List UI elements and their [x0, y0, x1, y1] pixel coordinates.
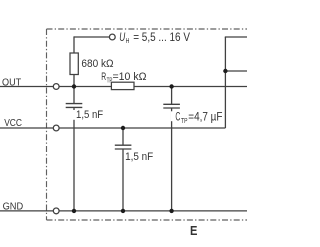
wire OUT row right segment [134, 86, 247, 88]
wire VCC row left segment [0, 127, 53, 129]
capacitor C1 top plate [66, 103, 83, 105]
resistor RTP 10k body [111, 82, 134, 89]
capacitor C1 bottom plate [66, 106, 83, 108]
wire right vertical VCC feed [224, 37, 226, 128]
svg-text:TP: TP [181, 116, 188, 125]
terminal GND [53, 208, 59, 214]
svg-text:C: C [175, 112, 180, 124]
wire GND terminal to right edge [59, 210, 247, 212]
boundary frame E top (dash-dot) [47, 28, 248, 30]
capacitor C2 bottom lead to GND rail [122, 149, 124, 211]
svg-text:1,5 nF: 1,5 nF [76, 109, 103, 121]
junction GND/CTP node [169, 209, 173, 213]
junction GND/C1 node [72, 209, 76, 213]
wire OUT terminal to RTP [59, 86, 111, 88]
terminal OUT [53, 84, 59, 90]
wire right top pin [225, 36, 247, 38]
svg-text:E: E [190, 223, 198, 238]
capacitor C1 1.5nF top lead [73, 87, 75, 104]
svg-text:R: R [101, 71, 106, 83]
capacitor C1 bottom lead to GND rail [73, 107, 75, 210]
svg-text:OUT: OUT [2, 77, 21, 88]
label CTP = 4,7 uF [171, 111, 224, 125]
label C1 value 1,5 nF [73, 109, 105, 121]
wire top supply rail to UH terminal [74, 36, 109, 38]
svg-text:=10 kΩ: =10 kΩ [113, 71, 147, 83]
capacitor C2 top plate [115, 144, 132, 146]
resistor R1 680k body [70, 53, 78, 75]
label C2 value 1,5 nF [125, 151, 155, 163]
junction right mid pin node [223, 69, 227, 73]
wire R1 bottom to OUT node [73, 75, 75, 87]
boundary frame E bottom (dash-dot) [47, 219, 248, 221]
wire vertical from top rail to R1 [73, 36, 75, 53]
capacitor CTP bottom lead to GND rail [171, 108, 173, 211]
svg-text:680 kΩ: 680 kΩ [81, 58, 113, 70]
svg-text:H: H [126, 36, 130, 45]
capacitor C2 1.5nF top lead from VCC [122, 128, 124, 145]
capacitor CTP top lead from OUT row [171, 87, 173, 105]
svg-text:= 5,5 ... 16 V: = 5,5 ... 16 V [133, 32, 190, 44]
junction VCC/C2 node [121, 126, 125, 130]
boundary frame E left (dash-dot) [46, 29, 48, 220]
capacitor CTP top plate [163, 103, 180, 105]
svg-text:1,5 nF: 1,5 nF [125, 151, 153, 163]
terminal VCC [53, 125, 59, 131]
label RTP = 10 kOhm [101, 71, 146, 84]
capacitor CTP bottom plate [163, 107, 180, 109]
wire right mid pin [225, 70, 247, 72]
capacitor C2 bottom plate [115, 148, 132, 150]
wire OUT row left segment [0, 86, 53, 88]
wire GND row left segment [0, 210, 53, 212]
svg-text:GND: GND [3, 201, 24, 212]
junction RTP/CTP node [169, 84, 173, 88]
junction OUT node at R1/C1 [72, 84, 76, 88]
svg-text:VCC: VCC [4, 118, 22, 129]
wire VCC terminal to right vertical [59, 127, 225, 129]
label UH = 5,5 ... 16 V [119, 32, 190, 45]
svg-text:=4,7 µF: =4,7 µF [188, 112, 222, 124]
terminal UH supply [109, 34, 115, 40]
junction GND/C2 node [121, 209, 125, 213]
